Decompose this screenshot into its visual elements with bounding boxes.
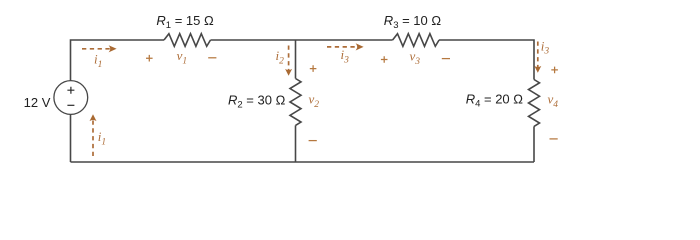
- resistor R3: [393, 34, 439, 47]
- svg-text:v1: v1: [177, 48, 188, 66]
- polarity + for v4: [551, 67, 558, 74]
- polarity + for v2: [310, 65, 317, 72]
- current arrow i3 (top middle): [327, 43, 364, 50]
- polarity - for v1: [208, 57, 216, 59]
- wire: bottom rail: [71, 161, 535, 163]
- polarity - for v3: [442, 58, 450, 60]
- current arrow i3 (right branch): [534, 42, 541, 73]
- svg-text:i1: i1: [94, 52, 102, 70]
- svg-text:i2: i2: [276, 48, 285, 66]
- svg-text:v4: v4: [548, 92, 559, 110]
- current arrow i2: [285, 46, 292, 76]
- svg-text:R2 = 30 Ω: R2 = 30 Ω: [228, 92, 286, 110]
- svg-text:i3: i3: [541, 38, 550, 56]
- current arrow i1 (top left): [82, 45, 117, 52]
- wire: source top to top-left corner to R1: [71, 40, 165, 81]
- polarity - for v2: [309, 140, 317, 142]
- resistor R2: [290, 79, 301, 126]
- polarity + for v3: [381, 56, 388, 63]
- svg-text:R3 = 10 Ω: R3 = 10 Ω: [384, 13, 442, 31]
- wire: source bottom to bottom rail: [70, 115, 72, 163]
- resistor R4: [529, 80, 540, 127]
- svg-text:12 V: 12 V: [24, 95, 51, 110]
- polarity + for v1: [146, 55, 153, 62]
- resistor R1: [164, 34, 210, 47]
- svg-text:i1: i1: [98, 129, 106, 147]
- wire: middle branch top: [295, 40, 297, 79]
- wire: R4 bottom to bottom rail: [533, 126, 535, 162]
- svg-text:R1 = 15 Ω: R1 = 15 Ω: [156, 13, 214, 31]
- voltage source V1 (12 V): [54, 81, 88, 115]
- svg-text:i3: i3: [341, 47, 350, 65]
- svg-text:R4 = 20 Ω: R4 = 20 Ω: [466, 92, 524, 110]
- wire: middle branch bottom: [295, 125, 297, 162]
- svg-text:v3: v3: [410, 49, 421, 67]
- polarity - for v4: [550, 138, 558, 140]
- current arrow i1 (below source): [90, 114, 97, 156]
- svg-text:v2: v2: [309, 92, 320, 110]
- wire: top rail R1 to R3: [211, 39, 393, 41]
- wire: top rail R3 to top-right corner down to R4: [439, 40, 534, 80]
